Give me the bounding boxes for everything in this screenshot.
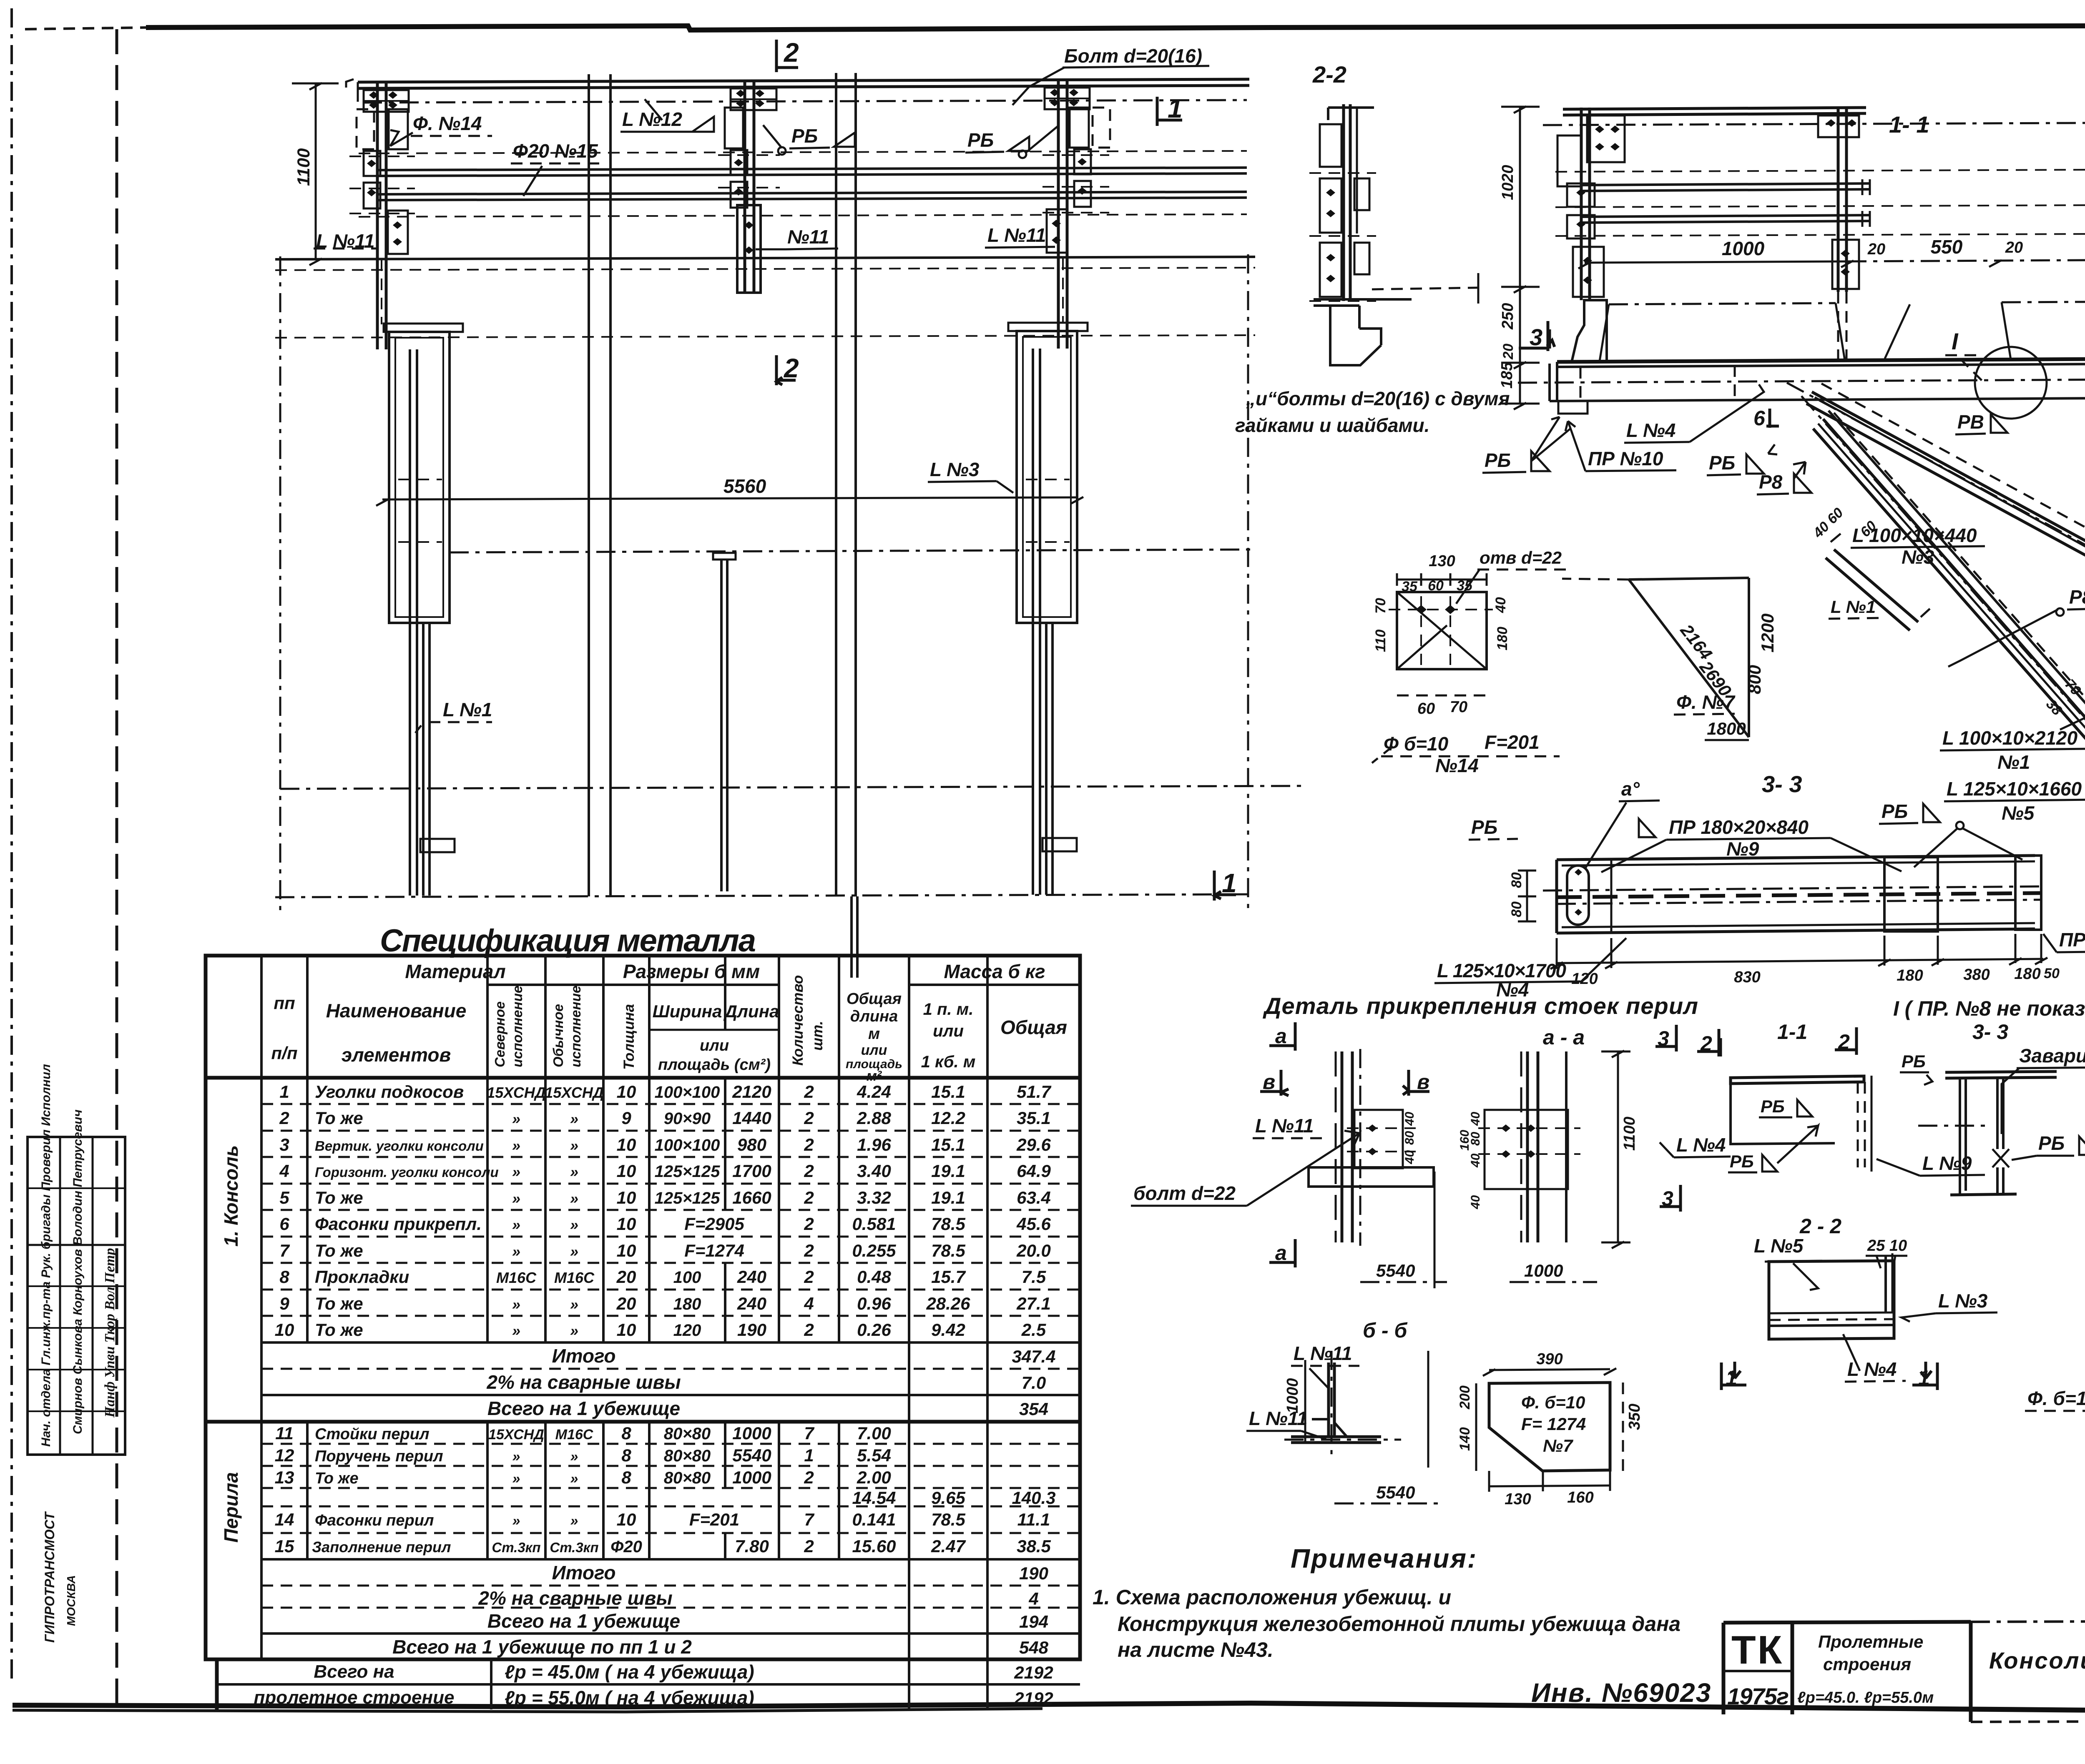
svg-text:78.5: 78.5 <box>931 1510 965 1529</box>
svg-text:4: 4 <box>279 1161 289 1181</box>
handrail axis dash-dot <box>363 100 1247 103</box>
svg-text:1: 1 <box>804 1445 814 1465</box>
svg-text:40: 40 <box>1469 1112 1482 1126</box>
svg-text:4: 4 <box>1028 1589 1038 1608</box>
table header lines <box>487 984 603 986</box>
detail 2-2 <box>1721 1214 1997 1390</box>
svg-text:7.00: 7.00 <box>857 1423 891 1443</box>
svg-text:Стойки перил: Стойки перил <box>315 1425 430 1443</box>
label PR N10 <box>1565 421 1676 471</box>
svg-text:4: 4 <box>804 1294 814 1313</box>
svg-text:6: 6 <box>279 1214 289 1234</box>
svg-text:3.40: 3.40 <box>857 1161 891 1181</box>
svg-text:80: 80 <box>1509 901 1525 917</box>
svg-text:б - б: б - б <box>1363 1319 1408 1342</box>
axis lines dash-dot <box>275 254 1303 915</box>
svg-text:100×100: 100×100 <box>655 1083 720 1102</box>
svg-text:1 п. м.: 1 п. м. <box>923 1000 974 1019</box>
svg-text:8: 8 <box>279 1267 289 1287</box>
svg-text:РВ: РВ <box>1957 411 1984 433</box>
TK logo <box>1727 1628 1789 1709</box>
label L N1 (elevation) <box>415 699 492 733</box>
svg-text:2192: 2192 <box>1014 1663 1053 1682</box>
svg-text:78.5: 78.5 <box>931 1241 965 1260</box>
svg-text:длина: длина <box>850 1008 898 1025</box>
svg-text:элементов: элементов <box>342 1044 451 1066</box>
svg-text:2.47: 2.47 <box>931 1536 966 1556</box>
svg-text:0.581: 0.581 <box>852 1214 896 1234</box>
svg-text:2: 2 <box>804 1468 814 1487</box>
svg-text:Примечания:: Примечания: <box>1291 1543 1477 1573</box>
svg-text:Ф. б=10, F=2905: Ф. б=10, F=2905 <box>2027 1388 2085 1409</box>
svg-text:Всего на 1 убежище: Всего на 1 убежище <box>487 1610 680 1632</box>
svg-text:Ф20 №15: Ф20 №15 <box>513 140 598 162</box>
svg-text:14: 14 <box>275 1510 294 1529</box>
dim 5540 <box>1360 1281 1447 1283</box>
svg-text:80×80: 80×80 <box>664 1447 711 1465</box>
svg-text:ℓр = 45.0м ( на 4 убеж: ℓр = 45.0м ( на 4 убежища) <box>505 1661 754 1683</box>
svg-text:390: 390 <box>1536 1350 1562 1368</box>
svg-text:40: 40 <box>1469 1195 1482 1209</box>
svg-text:2192: 2192 <box>1014 1689 1053 1708</box>
svg-text:45.6: 45.6 <box>1016 1214 1051 1234</box>
dimension row 1000/20/550/20/940 <box>1578 233 2085 268</box>
svg-text:»: » <box>512 1190 520 1207</box>
section mark 2 (lower) <box>776 353 799 385</box>
svg-text:15ХСНД: 15ХСНД <box>488 1427 544 1443</box>
svg-text:200: 200 <box>1457 1385 1473 1410</box>
svg-text:Длина: Длина <box>723 1001 779 1021</box>
svg-text:51.7: 51.7 <box>1017 1082 1051 1102</box>
svg-text:1100: 1100 <box>1621 1117 1638 1151</box>
weld flag RB (under beam) <box>1707 444 1777 475</box>
svg-text:Горизонт. уголки консоли: Горизонт. уголки консоли <box>315 1164 499 1180</box>
svg-text:»: » <box>570 1322 578 1339</box>
svg-text:»: » <box>512 1296 520 1313</box>
svg-text:180: 180 <box>2014 965 2040 983</box>
svg-text:Нач. отдела Гл.инж.пр-та Рук: Нач. отдела Гл.инж.пр-та Рук. бригады Пр… <box>39 1064 53 1447</box>
label PR 180x20x840 N9 <box>1601 816 1902 872</box>
svg-text:или: или <box>700 1037 729 1054</box>
svg-text:Всего на: Всего на <box>314 1661 394 1682</box>
svg-text:То же: То же <box>315 1188 363 1207</box>
svg-text:»: » <box>570 1296 578 1313</box>
svg-text:15.1: 15.1 <box>931 1135 965 1154</box>
svg-text:ℓр=45.0. ℓр=55.0м: ℓр=45.0. ℓр=55.0м <box>1797 1689 1934 1706</box>
svg-text:F=1274: F=1274 <box>684 1241 744 1260</box>
svg-text:90×90: 90×90 <box>664 1109 711 1128</box>
svg-text:Ф. №14: Ф. №14 <box>413 113 482 134</box>
svg-text:1-1: 1-1 <box>1777 1020 1807 1044</box>
svg-text:Ст.3кп: Ст.3кп <box>492 1540 540 1555</box>
svg-text:180: 180 <box>1495 627 1510 650</box>
svg-text:ГИПРОТРАНСМОСТ: ГИПРОТРАНСМОСТ <box>42 1511 57 1643</box>
svg-text:Смирнов Сынкова Корноухов: Смирнов Сынкова Корноухов Володин Петрус… <box>71 1109 85 1434</box>
svg-text:Количество: Количество <box>790 975 806 1066</box>
svg-text:20.0: 20.0 <box>1016 1241 1051 1260</box>
svg-text:4.24: 4.24 <box>857 1082 891 1102</box>
svg-text:F=201: F=201 <box>1485 731 1540 753</box>
svg-text:2.88: 2.88 <box>857 1108 891 1128</box>
svg-text:Всего на 1 убежище по: Всего на 1 убежище по пп 1 и 2 <box>392 1636 692 1658</box>
svg-text:Толщина: Толщина <box>621 1004 637 1070</box>
dims below bar <box>1557 959 2043 963</box>
svg-text:347.4: 347.4 <box>1012 1347 1055 1366</box>
svg-text:1200: 1200 <box>1758 614 1777 652</box>
svg-text:F= 1274: F= 1274 <box>1521 1414 1586 1434</box>
svg-text:1.96: 1.96 <box>857 1135 891 1154</box>
svg-text:800: 800 <box>1745 665 1764 694</box>
svg-text:ПР №8: ПР №8 <box>2059 929 2085 951</box>
svg-text:п/п: п/п <box>271 1043 298 1063</box>
svg-text:28.26: 28.26 <box>926 1294 970 1313</box>
svg-text:2% на сварные швы: 2% на сварные швы <box>486 1371 681 1393</box>
svg-text:78.5: 78.5 <box>931 1214 965 1234</box>
svg-text:6: 6 <box>1753 406 1766 430</box>
dense centre band <box>1543 886 2043 891</box>
label L N1 (brace) <box>1829 597 1885 619</box>
svg-text:1020: 1020 <box>1499 165 1517 200</box>
svg-text:5540: 5540 <box>1376 1261 1415 1280</box>
svg-text:7.80: 7.80 <box>735 1536 769 1556</box>
svg-text:Итого: Итого <box>552 1562 616 1583</box>
weld flag RB (bar right) <box>1879 800 2022 867</box>
label N11 (mid post) <box>756 226 838 249</box>
svg-text:12.2: 12.2 <box>931 1108 965 1128</box>
svg-text:отв d=22: отв d=22 <box>1480 548 1562 567</box>
label L N12 with weld flag <box>620 99 714 132</box>
svg-text:L №11: L №11 <box>1249 1408 1308 1429</box>
svg-text:1 кб. м: 1 кб. м <box>921 1053 976 1071</box>
svg-text:РБ: РБ <box>1485 449 1511 471</box>
marker a deg <box>1585 778 1660 869</box>
weld flag RB (mid) <box>763 125 855 155</box>
weld flag RB (right) <box>965 125 1059 158</box>
svg-text:40: 40 <box>1469 1153 1482 1168</box>
svg-text:L 125×10×1660: L 125×10×1660 <box>1947 778 2082 800</box>
svg-text:»: » <box>570 1471 578 1487</box>
svg-text:Фасонки прикрепл.: Фасонки прикрепл. <box>315 1214 482 1234</box>
svg-text:F=201: F=201 <box>689 1510 739 1529</box>
svg-text:ТК: ТК <box>1731 1628 1784 1672</box>
svg-text:60: 60 <box>1417 700 1435 718</box>
svg-text:Консоли убежищ: Консоли убежищ <box>1989 1647 2085 1674</box>
svg-text:9.65: 9.65 <box>931 1488 965 1508</box>
svg-text:2.5: 2.5 <box>1021 1320 1046 1340</box>
weld detail circle I <box>1975 347 2047 419</box>
svg-text:0.26: 0.26 <box>857 1320 891 1340</box>
svg-text:Нанф Упви Ткор Вол Петр: Нанф Упви Ткор Вол Петр <box>102 1248 118 1418</box>
dims below <box>1397 695 1487 697</box>
svg-text:3: 3 <box>1530 324 1542 350</box>
svg-text:160: 160 <box>1458 1130 1472 1151</box>
svg-text:РБ: РБ <box>791 125 818 147</box>
svg-text:7: 7 <box>279 1241 290 1260</box>
middle plates <box>1884 857 1938 931</box>
svg-text:2: 2 <box>804 1188 814 1207</box>
section right post <box>1818 108 1859 359</box>
svg-text:L №9: L №9 <box>1922 1152 1972 1174</box>
svg-text:80: 80 <box>1509 872 1525 888</box>
svg-text:12: 12 <box>275 1445 294 1465</box>
svg-text:13: 13 <box>275 1468 294 1487</box>
svg-text:L 100×10×440: L 100×10×440 <box>1852 524 1977 546</box>
svg-text:№14: №14 <box>1435 755 1479 776</box>
svg-text:35: 35 <box>1402 579 1418 595</box>
section mark 1 (right bottom) <box>1214 868 1237 901</box>
svg-text:Болт d=20(16): Болт d=20(16) <box>1064 45 1202 67</box>
brace N1 (lower long diagonal) <box>1801 396 2085 909</box>
main title block grid <box>1723 1621 2085 1722</box>
svg-text:РБ: РБ <box>1709 452 1735 474</box>
svg-text:2: 2 <box>804 1536 814 1556</box>
deck top line <box>275 257 1255 259</box>
svg-text:9: 9 <box>621 1108 631 1128</box>
svg-text:8: 8 <box>621 1423 631 1443</box>
svg-text:550: 550 <box>1931 236 1963 258</box>
svg-text:10: 10 <box>617 1214 636 1234</box>
svg-text:2120: 2120 <box>732 1082 771 1102</box>
svg-text:№11: №11 <box>787 226 829 248</box>
svg-text:15ХСНД: 15ХСНД <box>545 1084 604 1101</box>
dim 1000 <box>1510 1281 1597 1283</box>
svg-text:ПР 180×20×840: ПР 180×20×840 <box>1669 816 1809 838</box>
svg-text:830: 830 <box>1734 969 1760 986</box>
svg-text:ПР №10: ПР №10 <box>1588 448 1663 469</box>
svg-text:L №11: L №11 <box>1255 1115 1314 1137</box>
svg-text:Обычное: Обычное <box>550 1004 566 1067</box>
svg-text:№7: №7 <box>1543 1436 1573 1455</box>
svg-text:10: 10 <box>617 1135 636 1154</box>
svg-text:15.1: 15.1 <box>931 1082 965 1102</box>
svg-text:5.54: 5.54 <box>857 1445 891 1465</box>
svg-text:L №3: L №3 <box>1938 1290 1988 1312</box>
svg-text:40: 40 <box>1403 1150 1417 1164</box>
svg-text:2: 2 <box>804 1214 814 1234</box>
svg-text:20: 20 <box>1500 344 1516 360</box>
svg-text:120: 120 <box>673 1321 701 1340</box>
label bolt d=20(16) <box>1012 45 1209 105</box>
svg-text:1000: 1000 <box>1524 1261 1563 1280</box>
rail bar row 2 <box>377 192 1247 194</box>
svg-text:исполнение: исполнение <box>510 986 525 1067</box>
svg-text:Ф б=10: Ф б=10 <box>1384 733 1449 755</box>
svg-text:35.1: 35.1 <box>1017 1108 1051 1128</box>
label L N11 (right) <box>985 224 1055 248</box>
section left post <box>1557 108 1625 362</box>
section rails <box>1543 108 2085 236</box>
svg-text:190: 190 <box>737 1320 766 1340</box>
svg-text:11.1: 11.1 <box>1017 1510 1050 1529</box>
svg-text:1000: 1000 <box>732 1468 771 1487</box>
svg-text:0.141: 0.141 <box>852 1510 896 1529</box>
svg-text:2: 2 <box>784 38 799 68</box>
svg-text:3: 3 <box>279 1135 289 1154</box>
svg-text:№1: №1 <box>1997 751 2030 773</box>
svg-text:М16С: М16С <box>555 1427 593 1443</box>
svg-text:140.3: 140.3 <box>1012 1488 1055 1508</box>
section 2-2 corbel bracket <box>1314 299 1412 365</box>
svg-text:2.00: 2.00 <box>857 1468 891 1487</box>
svg-text:9: 9 <box>279 1294 289 1313</box>
svg-text:»: » <box>570 1513 578 1529</box>
svg-text:м: м <box>868 1025 880 1043</box>
svg-text:Конструкция железобетонной п: Конструкция железобетонной плиты убежища… <box>1118 1612 1681 1636</box>
svg-text:Вертик. уголки консоли: Вертик. уголки консоли <box>315 1138 484 1154</box>
svg-text:L 125×10×1700: L 125×10×1700 <box>1437 960 1566 981</box>
svg-text:Ф. б=10: Ф. б=10 <box>1521 1393 1585 1412</box>
svg-text:»: » <box>570 1110 578 1127</box>
svg-text:20: 20 <box>616 1267 636 1287</box>
svg-text:25 10: 25 10 <box>1867 1237 1907 1255</box>
svg-text:1: 1 <box>279 1082 289 1102</box>
weld flag R8 <box>1757 462 1811 494</box>
svg-text:19.1: 19.1 <box>931 1188 965 1207</box>
svg-text:на листе №43.: на листе №43. <box>1118 1638 1274 1661</box>
svg-text:№3: №3 <box>1902 546 1934 568</box>
svg-text:2: 2 <box>784 353 799 383</box>
svg-text:0.48: 0.48 <box>857 1267 891 1287</box>
svg-text:М16С: М16С <box>554 1269 595 1286</box>
svg-text:»: » <box>512 1243 520 1260</box>
svg-text:190: 190 <box>1019 1563 1048 1583</box>
svg-text:80×80: 80×80 <box>664 1425 711 1443</box>
rail bar row 1 <box>377 168 1247 170</box>
svg-text:3- 3: 3- 3 <box>1762 771 1802 797</box>
frame top edge <box>146 25 2085 30</box>
brace N2 (upper diagonal) <box>1787 383 2085 642</box>
marker I <box>1945 328 1985 384</box>
svg-text:1. Схема расположения убежи: 1. Схема расположения убежищ. и <box>1093 1586 1451 1609</box>
label F N14 <box>390 113 492 146</box>
svg-text:»: » <box>570 1216 578 1233</box>
svg-text:I: I <box>1952 328 1959 354</box>
bar outline <box>1557 856 2035 860</box>
dims above <box>1397 579 1487 581</box>
detail N7 (gusset square) <box>1457 1350 1643 1508</box>
svg-text:2: 2 <box>804 1267 814 1287</box>
svg-text:»: » <box>570 1190 578 1207</box>
svg-text:20: 20 <box>1867 241 1885 258</box>
table row lines <box>261 1103 1080 1105</box>
weld flag RV (upper) <box>1955 411 2007 434</box>
svg-text:3- 3: 3- 3 <box>1972 1020 2008 1044</box>
svg-text:площадь (см²): площадь (см²) <box>658 1056 771 1074</box>
svg-text:8: 8 <box>621 1468 631 1487</box>
label L 125x10x1700 N4 <box>1434 938 1626 1001</box>
svg-text:Общая: Общая <box>847 990 902 1008</box>
heading I (PR N8 not shown) + 3-3 <box>1893 997 2085 1044</box>
svg-text:7: 7 <box>804 1510 814 1529</box>
section mark 3 <box>1519 321 1555 351</box>
detail I: welded tee <box>1918 1045 2085 1195</box>
svg-text:„и“болты d=20(16) с двумя: „и“болты d=20(16) с двумя <box>1246 388 1510 409</box>
svg-text:L 100×10×2120: L 100×10×2120 <box>1942 727 2077 749</box>
svg-text:240: 240 <box>737 1267 766 1287</box>
svg-text:3.32: 3.32 <box>857 1188 891 1207</box>
svg-text:7.5: 7.5 <box>1022 1267 1046 1287</box>
svg-text:180: 180 <box>1897 967 1923 984</box>
section 2-2 post <box>1309 104 1478 365</box>
svg-text:или: или <box>933 1022 964 1040</box>
svg-text:То же: То же <box>315 1320 363 1340</box>
svg-text:РБ: РБ <box>2038 1132 2065 1154</box>
svg-text:1800: 1800 <box>1707 719 1746 738</box>
svg-text:2-2: 2-2 <box>1312 61 1346 88</box>
detail b-b (corner angle) <box>1246 1319 1439 1503</box>
svg-text:1440: 1440 <box>732 1108 771 1128</box>
svg-text:L №11: L №11 <box>1294 1342 1352 1364</box>
svg-text:380: 380 <box>1963 966 1990 984</box>
svg-text:исполнение: исполнение <box>568 986 583 1067</box>
svg-text:80: 80 <box>1403 1131 1417 1145</box>
dims 38/70 rotated on brace N1 <box>2043 676 2084 719</box>
detail N8 (tall plate) <box>2025 1034 2085 1433</box>
svg-text:240: 240 <box>737 1294 766 1313</box>
left margin dash-dot line <box>10 8 13 1680</box>
svg-text:7.0: 7.0 <box>1022 1373 1046 1393</box>
label L 125x10x1660 N5 <box>1944 778 2085 824</box>
svg-text:Инв. №69023: Инв. №69023 <box>1531 1678 1711 1708</box>
svg-text:То же: То же <box>315 1294 363 1313</box>
svg-text:15.60: 15.60 <box>852 1536 896 1556</box>
svg-text:РБ: РБ <box>967 129 994 151</box>
svg-text:Итого: Итого <box>552 1345 616 1367</box>
svg-text:Заполнение перил: Заполнение перил <box>312 1538 451 1556</box>
svg-text:Спецификация металла: Спецификация металла <box>380 923 759 959</box>
svg-text:110: 110 <box>1373 630 1389 652</box>
weld flag RB (bar left) <box>1469 816 1655 840</box>
svg-text:1700: 1700 <box>732 1161 771 1181</box>
svg-text:»: » <box>512 1449 520 1465</box>
svg-text:Р8: Р8 <box>2069 586 2085 608</box>
svg-text:100×100: 100×100 <box>655 1136 720 1154</box>
label F20 N15 <box>511 140 605 196</box>
svg-text:РБ: РБ <box>1761 1097 1785 1116</box>
svg-text:180: 180 <box>673 1295 701 1313</box>
svg-text:Общая: Общая <box>1000 1016 1067 1038</box>
svg-text:L №1: L №1 <box>1831 597 1876 617</box>
svg-text:40: 40 <box>1403 1112 1417 1126</box>
svg-text:То же: То же <box>315 1241 363 1260</box>
svg-text:10: 10 <box>617 1510 636 1529</box>
svg-text:№9: №9 <box>1726 838 1759 860</box>
svg-text:15ХСНД: 15ХСНД <box>487 1084 546 1101</box>
label L N11 (left) <box>314 230 377 252</box>
slab dashed outlines <box>1600 301 2085 361</box>
svg-text:20: 20 <box>616 1294 636 1313</box>
svg-text:1. Консоль: 1. Консоль <box>220 1145 242 1247</box>
svg-text:2: 2 <box>804 1082 814 1102</box>
svg-text:»: » <box>512 1322 520 1339</box>
frame left edge <box>116 29 118 1707</box>
view b (left) <box>1131 1022 1585 1288</box>
section mark 1 (right top) <box>1157 93 1183 126</box>
project cell <box>1797 1632 1934 1706</box>
svg-text:2: 2 <box>804 1320 814 1340</box>
svg-text:Размеры б мм: Размеры б мм <box>623 961 760 982</box>
svg-text:а°: а° <box>1621 778 1640 800</box>
svg-text:100: 100 <box>673 1268 701 1287</box>
svg-text:Прокладки: Прокладки <box>315 1267 409 1287</box>
svg-text:То же: То же <box>315 1108 363 1128</box>
svg-text:№5: №5 <box>2002 802 2035 824</box>
svg-text:Наименование: Наименование <box>326 1000 467 1021</box>
svg-text:5540: 5540 <box>732 1445 771 1465</box>
svg-text:Материал: Материал <box>405 961 505 982</box>
svg-text:185: 185 <box>1498 362 1516 389</box>
svg-text:пп: пп <box>274 993 295 1013</box>
